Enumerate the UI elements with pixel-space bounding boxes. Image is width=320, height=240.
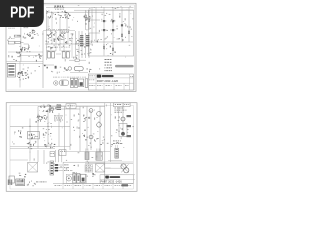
wire [42,31,44,88]
component marks below [111,42,114,45]
valve outline V9 [79,79,84,87]
wire [55,31,57,51]
transistor Q3 [103,29,105,31]
transistor V1 [32,30,35,33]
strip text [55,184,57,187]
IF stage cluster [53,40,56,41]
speaker LS1 [121,164,126,169]
wire [105,167,111,169]
wire between transformers [56,53,61,55]
component marks in box [93,26,96,29]
page2 annotation texture b [43,139,46,142]
wire double line [85,161,133,163]
junction [20,49,23,50]
resistor R32 [103,46,105,49]
strip top line [53,182,133,184]
wire [7,61,44,63]
modifications label [115,65,134,68]
value text row [46,28,47,31]
title block divider 2 [88,77,96,79]
wire mid bus p2 [10,125,70,127]
stage box [119,124,127,137]
capacitor C1 [51,13,53,17]
page 1 sheet inner border bottom [7,89,134,91]
capacitor C5 [17,35,21,37]
transistor Q1 [103,20,105,22]
wire [10,147,55,149]
wire rail [86,106,88,150]
wire rail 5 [128,11,130,43]
wire [7,63,44,65]
resistor dashes [57,105,62,106]
title border p2 [100,175,133,184]
text rows right 2 [113,140,115,143]
wire rail ext2 [112,42,114,56]
wire [43,30,75,32]
wire rail mid 2 [81,31,83,58]
page1 annotation texture 2 [71,33,72,34]
valve outline V7 [70,78,73,87]
small marks [87,175,88,178]
text rows right [115,107,116,110]
junction dots [30,126,31,127]
wire HT bus 2 [74,9,134,11]
wire rail mid 0 [75,31,77,58]
bottom left marks [30,145,32,148]
wire rail [99,106,101,151]
valve outline V13 [66,176,71,181]
column divider 2 [110,103,112,162]
wire rail mid 4 [88,33,90,58]
title cell text [89,75,91,78]
valve outline V15 [77,173,80,183]
valve outline V5 [54,81,58,85]
fuse F3 [8,71,14,73]
wire [43,64,54,66]
tagstrip TS2 [8,180,9,186]
resistor R33 [112,48,114,51]
transformer T1 [48,52,51,58]
wire [46,10,48,60]
polarized cap C20 [55,66,57,69]
component marks [83,16,86,18]
value dashes rows [54,115,56,118]
fuse F1 [8,65,14,67]
title block divider 4 [88,82,133,84]
wire rail 0 [91,11,93,43]
transistor TR3 [89,109,93,113]
relay box [28,132,40,139]
svg-text:PART 2033 -1426: PART 2033 -1426 [97,79,119,83]
wire mid bus [45,43,92,45]
wire [89,19,100,21]
wire [67,31,69,44]
marks right column [121,128,124,130]
component marks row [60,66,61,69]
small box [75,59,79,61]
notes text [105,58,107,61]
wire bus p2 [38,105,105,107]
triode V3 [60,33,63,36]
svg-text:PART 2033 -1426: PART 2033 -1426 [101,180,123,184]
valve outline V14 [73,173,76,183]
wire output bottom bus [89,41,133,43]
component marks row 2 [87,68,88,71]
layout enclosure [63,162,105,183]
component marks rails b [77,51,78,52]
wire anode rail 2 [88,10,90,30]
value labels 2 [8,37,10,40]
transformer T2 [62,52,65,58]
value dashes [36,181,38,184]
resistor R21 [85,15,87,18]
wire [105,167,121,169]
page 1 sheet outer border [6,3,136,91]
page 2 sheet inner border [10,105,133,189]
title line 2 [100,178,135,180]
wire [79,59,86,61]
mains connector CN1 [7,64,15,78]
transistor V1 grid cluster [34,33,36,36]
electrolytic C21 [74,67,83,71]
wire [89,32,100,34]
wire [51,18,53,45]
page2 annotation texture 2 [29,160,30,163]
driver cluster [37,116,38,117]
wire left rail 2 [19,62,21,88]
strip cells [62,183,64,189]
wire [59,18,61,52]
resistor R1 [14,35,20,37]
wire [122,107,124,135]
wire [64,151,110,153]
title line [100,174,135,176]
valve area box [66,174,86,183]
component marks on bus [48,45,50,48]
component marks output [106,36,109,37]
transistor TR5 [121,117,125,121]
connector bank C [115,148,119,158]
wire [66,12,68,31]
wire rail ext [103,42,105,56]
choke cluster [18,51,21,54]
voltage table [85,165,93,172]
svg-text:PDF: PDF [10,5,34,22]
transistor Q4 [112,29,114,31]
wire [20,55,43,57]
resistor R2 [15,42,20,44]
page1 annotation texture 3 [22,64,25,67]
triode V2 [48,34,51,37]
diode D1 [121,24,123,26]
small parts pair [44,65,46,66]
title block border [88,74,133,90]
wire rail mid 3 [85,33,87,58]
label PL36 box [66,104,76,109]
page2 annotation texture c [110,145,112,148]
wire rail mid 1 [78,31,80,58]
component marks rails [77,42,78,45]
wire rail 4 [121,11,123,43]
value text row 2 [46,46,48,49]
wire [63,106,65,151]
wire [54,150,56,162]
wire rail stubs [91,7,93,10]
maker logo p2 [105,176,109,179]
wire HT bus [46,6,134,8]
resistor R22 [88,19,90,22]
transistor TR6 [121,132,125,136]
transistor Q2 [112,20,114,22]
fuse F4 [8,74,14,75]
resistor bank column [80,35,83,36]
label box 2 [59,150,66,156]
wire main left rail [20,27,22,61]
marks right col [127,115,132,117]
wire [8,51,43,53]
wire [58,113,60,147]
fuse F2 [8,68,14,70]
wire [69,104,71,150]
wire [29,119,31,151]
wire [63,35,65,51]
value labels [8,27,9,30]
boost stage enclosure [88,10,133,56]
maker logo [97,75,101,78]
label box [50,152,55,157]
valve outline V8 [74,78,77,87]
page 2 sheet outer border [6,103,137,192]
wire rail 1 [95,11,97,43]
component marks [30,180,33,183]
component marks left [30,31,31,34]
wire anode rail [85,10,87,30]
page 1 sheet inner border top [7,4,134,6]
wire [71,35,73,58]
marks rails p2 [83,120,84,123]
strip dark cell [122,184,129,186]
valve chart caption [53,76,55,79]
marks above title [118,142,120,145]
connector bank A [85,152,89,160]
parts mid [32,56,35,59]
valve outline V10 [85,79,88,88]
valve V4 envelope [68,67,72,71]
wire [118,107,120,124]
transistor TR4 [89,135,93,139]
cluster mid [50,133,51,134]
marks rails p2b [97,137,98,140]
resistor R30 [121,34,123,37]
valve outline V6 [59,80,68,86]
resistor R31 [128,31,130,34]
valve V11 [97,112,102,117]
wire heater bus [46,11,104,13]
tagstrip TS1 [50,161,54,175]
wire [115,145,117,148]
small parts [20,174,21,177]
label PL36 box r [114,103,124,107]
parts left mid [20,55,21,58]
bottom row cluster [50,146,51,149]
transistor TR2 [39,116,43,120]
layout box notes [77,165,80,167]
wire [47,109,49,147]
wire elbow [24,43,29,45]
crossed box X1 [28,162,38,172]
page2 annotation texture [42,106,45,107]
title cells [103,83,105,90]
wire [69,59,75,61]
label box [61,30,68,33]
title block divider [95,74,97,90]
switch S1 cluster [25,72,27,73]
meter box M1 [95,164,104,172]
mains box [9,176,14,183]
connector bank B [96,152,102,160]
node PL500 label [55,6,56,7]
wire [10,159,28,161]
left cluster [20,137,22,138]
component box K1 [8,41,14,44]
wire [70,72,88,74]
PDF badge [0,0,44,27]
column divider [104,103,106,184]
wire rail [90,110,92,150]
component cluster below PL500 [49,16,52,18]
wire [29,150,31,160]
page1 annotation texture [100,19,103,20]
wire [10,145,70,147]
wire rail 2 [103,11,105,43]
input cluster [40,106,43,109]
valve outline V16 [81,174,86,182]
wire [37,106,39,148]
arrow links [55,164,58,166]
valve V12 [97,123,102,128]
title block divider 3 [96,77,134,79]
page 1 sheet inner border right [134,5,136,90]
transformer T3 [16,179,25,186]
capacitor C6 [21,42,24,44]
wire [47,18,49,31]
wire [108,159,122,161]
wire rail 3 [112,11,114,43]
transistor TR1 [50,107,54,111]
wire rail [79,106,81,151]
wire bus p2 b [48,108,80,110]
